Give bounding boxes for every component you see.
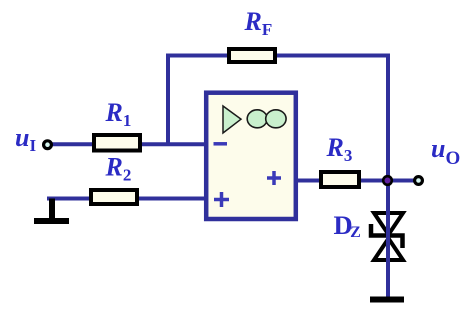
label RF: [244, 7, 273, 39]
zener diode DZ (back-to-back) upper triangle: [374, 213, 403, 235]
svg-text:uI: uI: [15, 123, 36, 155]
wire R1 to op-amp inverting input: [140, 142, 206, 146]
node junction dot at output: [383, 176, 392, 185]
label uO: [431, 134, 460, 169]
zener diode DZ lower triangle: [374, 239, 403, 261]
zener diode DZ z-shaped cathode bar: [371, 224, 403, 248]
wire R3 to output terminal uO: [359, 179, 414, 183]
terminal uI open circle: [44, 141, 52, 149]
op-amp non-inverting input plus sign: [214, 192, 229, 207]
op-amp output plus sign: [267, 171, 281, 185]
svg-text:R3: R3: [326, 133, 353, 165]
wire R2 left to ground: [47, 197, 92, 201]
op-amp internal triangle: [223, 106, 241, 133]
svg-text:uO: uO: [431, 134, 460, 169]
op-amp internal circle 2: [266, 110, 286, 128]
resistor R2: [91, 190, 137, 204]
wire input uI to R1: [52, 142, 94, 146]
ground right (below zener) bar: [370, 297, 404, 303]
op-amp internal circle 1: [247, 110, 267, 128]
label DZ: [334, 210, 361, 241]
wire op-amp output to R3: [296, 179, 321, 183]
label R1: [105, 98, 132, 130]
label uI: [15, 123, 36, 155]
label R3: [326, 133, 353, 165]
resistor R1: [94, 135, 140, 151]
svg-text:RF: RF: [244, 7, 273, 39]
wire feedback right vertical down to ground: [386, 54, 390, 298]
label R2: [105, 153, 132, 185]
ground left bar: [34, 218, 69, 224]
op-amp inverting input minus sign: [214, 142, 228, 146]
wire feedback left vertical: [166, 56, 170, 147]
svg-text:DZ: DZ: [334, 210, 361, 241]
wire R2 to op-amp non-inverting input: [137, 197, 206, 201]
svg-text:R1: R1: [105, 98, 132, 130]
wire feedback top horizontal: [166, 54, 390, 58]
resistor R3: [321, 172, 359, 187]
resistor RF: [229, 49, 275, 62]
ground left (for R2) vertical stub: [49, 199, 55, 220]
op-amp U1 box: [206, 93, 296, 219]
terminal uO open circle: [415, 177, 423, 185]
svg-text:R2: R2: [105, 153, 132, 185]
